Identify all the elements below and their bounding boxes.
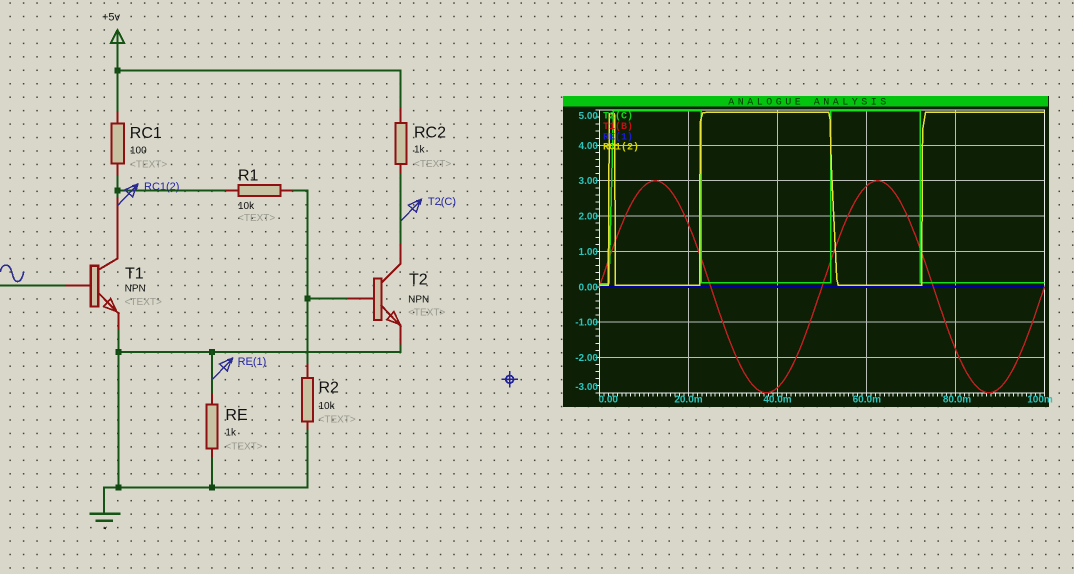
y axis minor ticks — [596, 110, 600, 393]
svg-text:<TEXT>: <TEXT> — [225, 441, 262, 452]
wire RC1 bottom to node — [117, 177, 119, 191]
svg-text:-3.00: -3.00 — [575, 382, 598, 393]
wire RC2 to T2 collector — [400, 175, 402, 245]
svg-text:-2.00: -2.00 — [575, 353, 598, 364]
junction bottom rail T1 column — [116, 484, 122, 490]
svg-text:<TEXT>: <TEXT> — [125, 297, 162, 308]
wire R2 bottom — [307, 431, 309, 487]
wire T1 emitter to mid rail — [118, 331, 120, 352]
wire +5v stem to top rail — [117, 43, 119, 70]
svg-text:1k: 1k — [414, 144, 426, 155]
svg-text:80.0m: 80.0m — [943, 395, 971, 406]
resistor RC1 pin top — [117, 112, 119, 124]
plot border — [600, 110, 1045, 393]
svg-text:<TEXT>: <TEXT> — [319, 414, 356, 425]
resistor RE pin top — [211, 395, 213, 406]
svg-text:RC1(2): RC1(2) — [144, 181, 179, 193]
svg-text:T2: T2 — [409, 271, 428, 288]
cursor crosshair — [502, 372, 517, 387]
svg-text:<TEXT>: <TEXT> — [414, 159, 451, 170]
svg-text:2.00: 2.00 — [579, 212, 599, 223]
pin T2 collector — [381, 245, 400, 283]
svg-text:4.00: 4.00 — [579, 141, 599, 152]
graph title bar — [563, 96, 1048, 107]
svg-text:40.0m: 40.0m — [763, 395, 791, 406]
svg-text:RC2: RC2 — [414, 124, 446, 141]
svg-text:0.00: 0.00 — [579, 282, 599, 293]
wire input to T1 base — [0, 285, 64, 287]
wire T2 emitter to mid rail — [400, 345, 402, 352]
junction T2 base tap — [305, 296, 311, 302]
svg-text:NPN: NPN — [125, 283, 146, 294]
probe RE(1) — [213, 357, 234, 379]
svg-text:RE(1): RE(1) — [238, 356, 267, 368]
wire left column down — [118, 352, 120, 487]
resistor RE pin bottom — [211, 448, 213, 458]
pin T1 base — [64, 285, 91, 287]
wire RE top — [211, 352, 213, 395]
wire T1 collector (node to transistor) — [117, 191, 119, 198]
resistor R2 pin top — [307, 365, 309, 379]
trace RC1(2) yellow square — [600, 112, 1045, 285]
svg-text:T2(C): T2(C) — [428, 196, 456, 208]
resistor R2 body — [302, 378, 313, 422]
pin T2 emitter lower — [400, 325, 402, 345]
wire RC2 top — [400, 70, 402, 108]
resistor R1 body — [239, 185, 281, 196]
svg-text:0.00: 0.00 — [599, 395, 619, 406]
svg-text:RE(1): RE(1) — [603, 131, 633, 143]
svg-text:RE: RE — [225, 407, 247, 424]
svg-text:ANALOGUE ANALYSIS: ANALOGUE ANALYSIS — [728, 98, 890, 109]
svg-text:RC1: RC1 — [130, 125, 162, 142]
svg-text:T1(B): T1(B) — [603, 121, 633, 133]
wire RE bottom — [211, 459, 213, 488]
junction mid rail T1 — [116, 349, 122, 355]
svg-text:3.00: 3.00 — [579, 176, 599, 187]
wire bottom rail — [104, 487, 308, 513]
resistor RC2 pin top — [400, 109, 402, 125]
trace T2(C) green square — [600, 111, 1045, 284]
svg-text:100m: 100m — [1027, 395, 1053, 406]
wire RC1 top — [117, 70, 119, 112]
svg-text:RC1(2): RC1(2) — [603, 142, 639, 154]
resistor RC2 body — [395, 123, 406, 164]
junction RC1(2) — [115, 188, 121, 194]
pin T1 emitter with arrow — [98, 293, 118, 314]
svg-text:60.0m: 60.0m — [853, 395, 881, 406]
T1 emitter arrowhead — [104, 299, 117, 312]
svg-text:+5v: +5v — [102, 12, 121, 24]
resistor RC1 body — [112, 124, 125, 164]
svg-text:NPN: NPN — [408, 295, 429, 306]
power symbol +5v arrow — [111, 30, 124, 70]
wire top rail — [117, 69, 401, 71]
transistor T1 base bar — [91, 266, 98, 307]
svg-text:1k: 1k — [225, 427, 237, 438]
pin T2 base — [347, 298, 374, 300]
resistor RC2 pin bottom — [400, 164, 402, 175]
x axis labels — [599, 395, 1053, 406]
svg-text:-1.00: -1.00 — [575, 318, 598, 329]
wire T2 base — [308, 298, 348, 300]
svg-text:<TEXT>: <TEXT> — [130, 159, 167, 170]
resistor RE body — [206, 405, 217, 449]
svg-text:10k: 10k — [238, 201, 255, 212]
junction mid rail RE — [209, 349, 215, 355]
wire R1 to divider column — [294, 191, 308, 365]
svg-text:10k: 10k — [319, 401, 336, 412]
svg-text:R2: R2 — [319, 380, 340, 397]
T2 emitter arrowhead — [387, 312, 400, 325]
svg-text:100: 100 — [130, 145, 147, 156]
gridlines horizontal — [600, 145, 1045, 357]
trace RE(1) blue flat — [600, 286, 1045, 288]
transistor T2 base bar — [374, 279, 381, 320]
x axis minor ticks — [600, 393, 1045, 396]
svg-text:20.0m: 20.0m — [674, 395, 702, 406]
resistor R2 pin bottom — [307, 422, 309, 431]
node RC1(2): wire to R1 — [118, 190, 227, 192]
pin T1 collector — [98, 198, 117, 270]
wire mid rail (emitter coupling) — [119, 351, 401, 353]
pin T2 emitter with arrow — [381, 306, 400, 327]
probe T2(C) — [402, 198, 423, 220]
svg-text:R1: R1 — [238, 168, 259, 185]
pin T1 emitter lower — [118, 313, 120, 331]
junction bottom rail RE — [209, 484, 215, 490]
svg-text:5.00: 5.00 — [579, 111, 599, 122]
resistor RC1 pin bottom — [117, 164, 119, 178]
trace T1(B) red sine — [600, 181, 1045, 393]
ground — [91, 514, 119, 521]
svg-text:1.00: 1.00 — [579, 247, 599, 258]
resistor R1 pin left — [226, 190, 239, 192]
gridlines vertical — [689, 110, 956, 393]
probe RC1(2) — [118, 183, 139, 205]
junction top rail at RC1 — [115, 67, 121, 73]
y axis labels — [575, 111, 598, 393]
svg-text:T2(C): T2(C) — [603, 111, 633, 123]
svg-text:<TEXT>: <TEXT> — [408, 308, 445, 319]
generator sine marker — [1, 265, 24, 281]
svg-text:T1: T1 — [125, 266, 144, 283]
graph window background — [563, 96, 1049, 407]
ground origin mark — [103, 527, 107, 530]
resistor R1 pin right — [281, 190, 294, 192]
svg-text:<TEXT>: <TEXT> — [238, 213, 275, 224]
